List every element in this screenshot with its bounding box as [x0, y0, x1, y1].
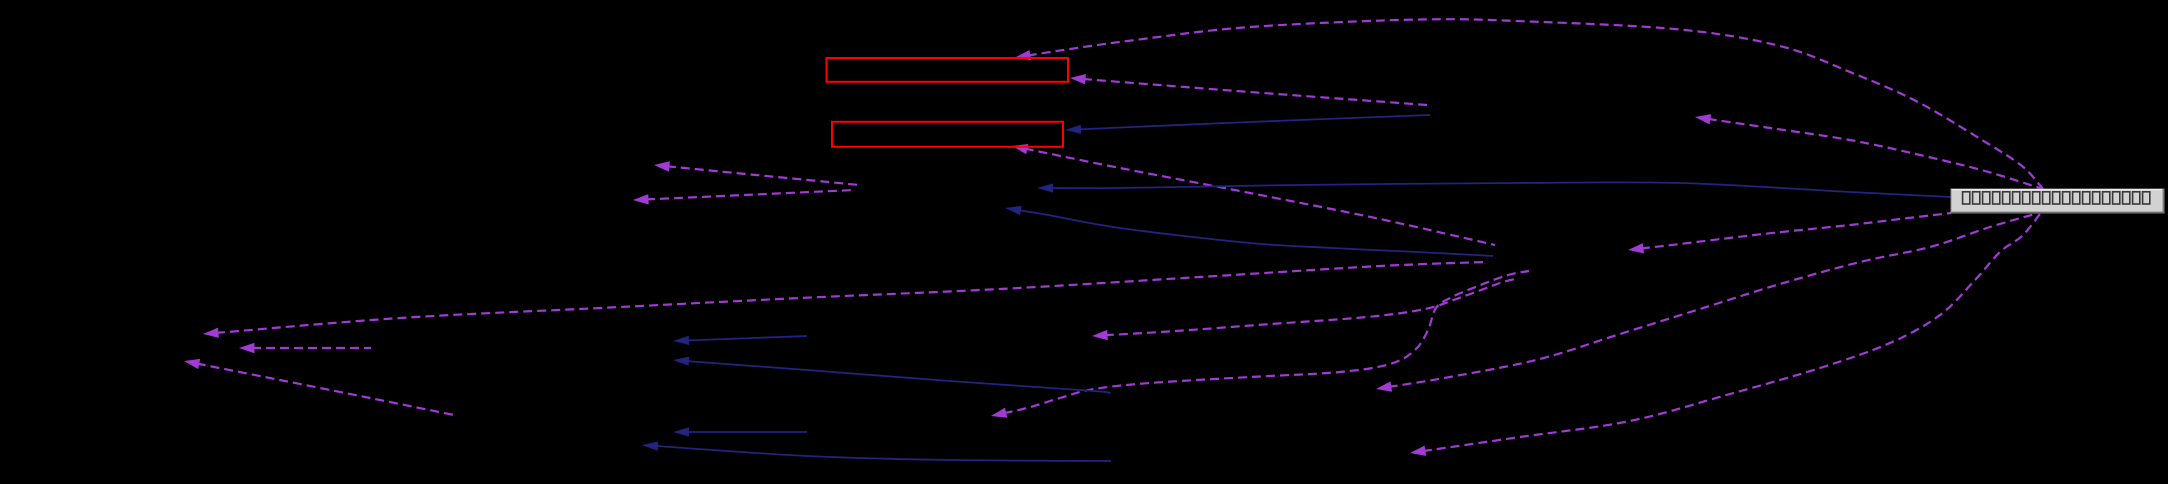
- edge P3 (dashed): [991, 271, 1529, 418]
- edge E2 (dashed): [1070, 74, 1427, 105]
- edge A (dashed): [1015, 19, 2043, 189]
- edge E8 (dashed): [633, 190, 855, 205]
- edge E5 (solid): [1037, 182, 1951, 197]
- edge P2 (dashed): [1092, 279, 1515, 340]
- edge E4 (dashed): [1012, 144, 1495, 245]
- edge E3 (solid): [1065, 115, 1430, 134]
- edge A2 (dashed): [239, 343, 371, 353]
- node: root (grey, filled): [1951, 189, 2164, 213]
- edge E15 (solid): [673, 357, 1110, 393]
- edge P4 (dashed): [1376, 214, 2035, 392]
- edge E7 (dashed): [654, 161, 859, 185]
- edge P5 (dashed): [1410, 214, 2040, 456]
- root label: 19 missing-glyph boxes: [1963, 192, 2150, 204]
- edge D (dashed): [1628, 213, 1951, 253]
- edge E21 (solid): [642, 442, 1111, 462]
- edge E14 (solid): [673, 336, 807, 345]
- edge A1 (dashed): [203, 262, 1486, 338]
- edge E6 (solid): [1005, 206, 1493, 256]
- edge A3 (dashed): [184, 359, 454, 415]
- node: red box 1 (truncated): [827, 58, 1069, 82]
- node: red box 2 (truncated): [832, 122, 1063, 147]
- edge E20 (solid): [673, 427, 807, 436]
- edge B (dashed): [1695, 114, 2043, 189]
